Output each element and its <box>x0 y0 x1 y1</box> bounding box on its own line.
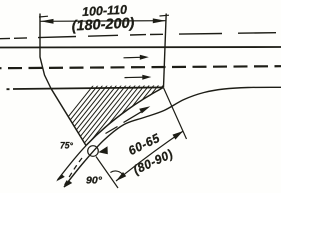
wire: dimension line 60-65 <box>116 131 183 181</box>
wire: ramp dashed center line <box>64 158 83 187</box>
wire: right leader extension from merge nose <box>164 88 187 139</box>
node: small arrowhead pointing at nose circle <box>98 146 108 154</box>
wire: bottom road edge with leading dot <box>7 87 164 89</box>
island curved right edge from merge nose to apex <box>86 87 164 145</box>
svg-text:90°: 90° <box>86 175 103 187</box>
wire: ramp outer edge curve <box>64 87 281 187</box>
node: left dimension arrowhead <box>41 19 54 24</box>
wire: exit direction arrow from apex going down-left <box>58 146 87 180</box>
wire: right extension line of 100-110 dimension <box>164 14 167 88</box>
node: arrowhead at lower end of outer edge <box>64 181 72 188</box>
wire: entry path dashed arrow on ramp <box>106 110 145 133</box>
node: nose circle at island apex <box>88 146 99 157</box>
node: arrowhead of exit arrow <box>56 174 65 181</box>
node: entry path arrowhead pointing up-right <box>139 106 150 113</box>
svg-text:(180-200): (180-200) <box>71 15 135 34</box>
wire: main road lane arrow upper <box>124 56 145 59</box>
wire: upper solid road line <box>0 46 281 49</box>
node: lane arrow lower head <box>142 75 151 80</box>
wire: left extension line of 100-110 dimension <box>40 14 51 89</box>
node: lane arrow upper head <box>140 55 149 60</box>
wire: upper lane dashed marking (explicit dashes) <box>0 33 276 39</box>
wire: left leader extension from nose circle <box>96 157 118 189</box>
node: right dimension arrowhead <box>153 18 166 23</box>
island hatch lines <box>40 80 200 152</box>
svg-text:75°: 75° <box>60 140 73 151</box>
wire: right extension top tick <box>160 14 170 17</box>
wire: main road lane arrow lower <box>125 76 147 79</box>
wire: dimension line 100-110 <box>41 20 166 23</box>
node: right-angle arc at 90 degree vertex <box>110 171 123 176</box>
node: lower-left arrowhead of 60-65 dimension <box>116 172 126 181</box>
wire: center dashed axis line <box>0 66 281 68</box>
island left edge <box>51 89 86 146</box>
node: upper-right arrowhead of 60-65 dimension <box>173 131 184 140</box>
wire: left extension top tick <box>39 15 48 18</box>
